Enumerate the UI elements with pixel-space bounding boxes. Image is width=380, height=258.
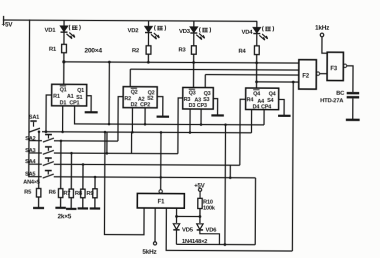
svg-text:S2: S2 bbox=[147, 96, 153, 102]
label (yellow) bbox=[200, 27, 211, 32]
svg-text:BC: BC bbox=[336, 91, 345, 97]
bus A (Q outputs to F2) bbox=[64, 62, 299, 63]
svg-text:D1: D1 bbox=[60, 100, 67, 106]
svg-text:R8: R8 bbox=[75, 191, 83, 197]
wire A4 CP4 pin bbox=[263, 110, 265, 125]
resistor R5 bbox=[33, 132, 44, 208]
svg-text:S4: S4 bbox=[267, 98, 273, 104]
flip-flop U A2 bbox=[123, 87, 157, 109]
svg-text:VD4: VD4 bbox=[241, 30, 253, 36]
svg-text:1kHz: 1kHz bbox=[315, 25, 329, 32]
switch SA2 bbox=[29, 134, 54, 142]
wire SA2 row bbox=[54, 140, 118, 142]
bus C (A3 to F2) bbox=[205, 74, 298, 76]
svg-text:SA4: SA4 bbox=[25, 159, 36, 165]
resistor R7 bbox=[66, 153, 77, 209]
flip-flop U A4 bbox=[246, 88, 279, 110]
svg-text:200×4: 200×4 bbox=[84, 47, 102, 54]
resistor R3 bbox=[191, 46, 196, 88]
wire D bus to F1 top bbox=[160, 132, 162, 189]
svg-text:R9: R9 bbox=[86, 191, 94, 197]
LED VD4 (orange) bbox=[253, 21, 267, 46]
wire A3 D3 pin bbox=[189, 109, 191, 132]
svg-text:CP3: CP3 bbox=[197, 103, 207, 109]
wire SA5 row down right bbox=[254, 178, 256, 245]
bus D (A4 to F2) bbox=[257, 81, 299, 83]
wire SA5 row bbox=[54, 177, 256, 178]
power terminal +5V (R10) bbox=[198, 188, 201, 198]
wire SA4 row bbox=[54, 163, 240, 166]
ground at A2 S2 pin bbox=[157, 97, 170, 117]
resistor R8 bbox=[78, 164, 89, 208]
ground at A3 S3 pin bbox=[211, 99, 224, 116]
label (orange) bbox=[263, 26, 274, 31]
svg-text:Q2: Q2 bbox=[131, 90, 138, 96]
resistor R4 bbox=[254, 46, 259, 89]
svg-text:F2: F2 bbox=[302, 74, 309, 80]
wire left loop down bbox=[104, 132, 144, 235]
switch SA5 bbox=[29, 170, 54, 178]
gate F1 bbox=[137, 190, 184, 209]
svg-text:VD2: VD2 bbox=[127, 28, 139, 34]
switch SA4 bbox=[29, 158, 54, 166]
gate F3 bbox=[327, 52, 347, 80]
svg-text:Q3: Q3 bbox=[189, 91, 196, 97]
resistor R10 bbox=[198, 198, 203, 223]
svg-text:F1: F1 bbox=[158, 199, 165, 205]
wire 1kHz to F3 bbox=[322, 37, 327, 53]
bus B (A2 to F2) bbox=[130, 68, 298, 71]
switch SA3 bbox=[29, 147, 54, 155]
wire A1 CP1 pin bbox=[75, 106, 110, 124]
wire A3 Q3 top pin to bus C bbox=[204, 75, 206, 88]
diode VD5 bbox=[173, 224, 180, 245]
diode VD6 bbox=[197, 224, 220, 245]
wire A3 R3 pin to SA3 bbox=[178, 98, 183, 154]
wire bottom loop right riser bbox=[291, 82, 294, 251]
wire SA4 row to SA5 row link bbox=[229, 165, 231, 177]
flip-flop U A3 bbox=[183, 87, 214, 109]
svg-text:100k: 100k bbox=[203, 206, 216, 212]
LED VD2 (green) bbox=[145, 21, 159, 46]
svg-text:+5V: +5V bbox=[194, 184, 204, 190]
wire F1 pin2 to 5kHz terminal bbox=[154, 208, 156, 242]
switch SA1 bbox=[29, 121, 40, 132]
wire diode bottom bus bbox=[176, 243, 255, 245]
wire A2 top pin to bus B bbox=[129, 69, 131, 86]
wire A2 D2 pin bbox=[131, 108, 133, 132]
svg-text:R3: R3 bbox=[178, 47, 186, 53]
svg-text:CP4: CP4 bbox=[261, 104, 271, 110]
wire SA3 row bbox=[54, 152, 178, 155]
svg-text:D2: D2 bbox=[131, 102, 138, 108]
wire SA1 / D bus bbox=[42, 132, 251, 133]
svg-text:AN4×5: AN4×5 bbox=[23, 179, 40, 185]
svg-text:R4: R4 bbox=[238, 49, 246, 55]
svg-text:R4: R4 bbox=[247, 97, 254, 103]
wire diode top bus bbox=[177, 215, 200, 217]
svg-text:S3: S3 bbox=[203, 97, 209, 103]
wire CP bus bbox=[109, 123, 264, 126]
node 1kHz terminal bbox=[320, 33, 324, 37]
svg-text:A1: A1 bbox=[67, 94, 74, 100]
label (green) bbox=[155, 25, 166, 30]
svg-text:R2: R2 bbox=[124, 96, 131, 102]
wire A4 R4 pin to SA4 bbox=[240, 99, 246, 165]
svg-text:SA3: SA3 bbox=[25, 148, 35, 154]
svg-text:2k×5: 2k×5 bbox=[58, 213, 72, 220]
wire left rail bbox=[28, 20, 31, 176]
svg-text:CP1: CP1 bbox=[69, 100, 79, 106]
wire A1 D1 pin bbox=[62, 106, 64, 132]
wire A4 D4 pin bbox=[250, 110, 252, 133]
gate F2 bbox=[299, 60, 320, 90]
LED VD3 (yellow) bbox=[190, 21, 204, 46]
wire F1 pin4 to diode bus bbox=[176, 208, 178, 223]
resistor R6 bbox=[55, 141, 66, 208]
svg-text:SA2: SA2 bbox=[25, 136, 35, 142]
svg-text:Q4: Q4 bbox=[253, 91, 260, 97]
svg-text:R5: R5 bbox=[24, 189, 32, 195]
wire CP bus to bottom loop bbox=[224, 125, 227, 245]
buzzer BC HTD-27A bbox=[346, 93, 360, 120]
wire F2 out to F3 bbox=[320, 73, 327, 75]
ground at A4 S4 pin bbox=[278, 99, 291, 115]
LED VD1 (red) bbox=[60, 20, 74, 44]
svg-text:Q4: Q4 bbox=[269, 92, 276, 98]
svg-text:VD3: VD3 bbox=[179, 29, 191, 35]
svg-text:R1: R1 bbox=[49, 47, 57, 53]
wire A2 CP2 pin bbox=[144, 108, 146, 124]
svg-text:Q1: Q1 bbox=[77, 88, 84, 94]
wire A3 CP3 pin bbox=[200, 109, 202, 124]
wire F3 out to buzzer bbox=[347, 66, 353, 92]
svg-text:R10: R10 bbox=[203, 199, 213, 205]
svg-text:1N4148×2: 1N4148×2 bbox=[182, 239, 207, 245]
svg-text:VD1: VD1 bbox=[44, 28, 56, 34]
wire A1 R1 pin to SA1 bbox=[46, 95, 52, 132]
node 5kHz terminal bbox=[153, 242, 156, 245]
svg-text:+5V: +5V bbox=[2, 22, 14, 29]
wire step D bus to SA3 row right bbox=[130, 132, 132, 153]
svg-text:R6: R6 bbox=[49, 190, 57, 196]
resistor R2 bbox=[146, 46, 151, 63]
wire bus A to CP bus link bbox=[108, 62, 110, 124]
wire step D bus to SA3 row left bbox=[106, 132, 108, 153]
svg-text:Q1: Q1 bbox=[60, 87, 67, 93]
resistor R9 bbox=[90, 177, 101, 209]
svg-text:R2: R2 bbox=[132, 48, 140, 54]
svg-text:HTD-27A: HTD-27A bbox=[320, 98, 344, 104]
svg-text:SA5: SA5 bbox=[25, 172, 35, 178]
svg-text:R3: R3 bbox=[184, 97, 191, 103]
svg-text:D4: D4 bbox=[253, 104, 260, 110]
svg-text:VD5: VD5 bbox=[182, 227, 194, 233]
node +5V terminal tick bbox=[3, 17, 5, 24]
svg-text:CP2: CP2 bbox=[140, 102, 150, 108]
ground at A1 S1 pin bbox=[85, 96, 98, 113]
svg-text:F3: F3 bbox=[330, 66, 337, 72]
wire F1 pin3 to bottom loop bbox=[166, 208, 292, 251]
svg-text:D3: D3 bbox=[189, 103, 196, 109]
svg-text:R1: R1 bbox=[53, 94, 60, 100]
flip-flop U A1 bbox=[52, 84, 87, 106]
wire A2 R2 pin to SA2 bbox=[118, 97, 123, 142]
svg-text:5kHz: 5kHz bbox=[142, 249, 156, 256]
resistor R1 bbox=[61, 44, 66, 84]
svg-text:VD6: VD6 bbox=[205, 227, 217, 233]
svg-text:SA1: SA1 bbox=[29, 114, 39, 120]
label (red) bbox=[69, 25, 80, 30]
wire +5V top rail bbox=[4, 20, 257, 21]
svg-text:R7: R7 bbox=[63, 191, 70, 197]
